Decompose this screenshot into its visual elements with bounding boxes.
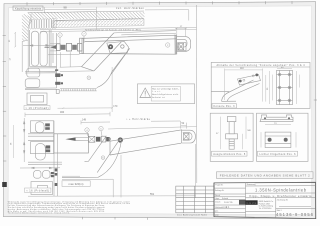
svg-text:Datum: Datum [215, 201, 221, 204]
lower glazing box [31, 182, 53, 195]
clip part right bottom [265, 132, 291, 147]
svg-text:≈ + Holz-Stärke: ≈ + Holz-Stärke [126, 118, 151, 121]
svg-text:Projekt Nr.: Projekt Nr. [215, 183, 223, 186]
svg-text:Ausgleichsbock Pos. 5: Ausgleichsbock Pos. 5 [213, 153, 246, 156]
svg-text:Zust. Änderung Datum Name: Zust. Änderung Datum Name [177, 213, 208, 216]
scissor arm diagonals lower view [85, 136, 121, 173]
svg-text:Tel. 07152/203-0: Tel. 07152/203-0 [259, 208, 272, 210]
drive body lower view [54, 134, 89, 153]
svg-text:Anschlußgehäuse nicht: Anschlußgehäuse nicht [152, 93, 178, 96]
svg-text:Kipp-, Klapp- u. Drehfenster e: Kipp-, Klapp- u. Drehfenster einwärts [250, 194, 313, 198]
dimension 98 top [45, 7, 97, 14]
extra left dim line lower view [13, 125, 15, 158]
svg-text:170: 170 [113, 105, 118, 108]
curved scissor arm upper view [97, 48, 130, 87]
chain teeth near frame [60, 89, 97, 91]
frame rebate lines under cluster [48, 52, 80, 67]
left small dim labels upper view [9, 39, 12, 61]
svg-text:460: 460 [60, 111, 65, 114]
svg-text:Auftrags Nr.: Auftrags Nr. [215, 189, 224, 192]
chain guide block at frame [56, 90, 59, 94]
balloons lower view [85, 126, 105, 159]
small chamber band [34, 171, 50, 179]
svg-text:24.07.95: 24.07.95 [224, 202, 233, 204]
label box Konsole Pos 3 [212, 104, 236, 108]
second dim line [81, 120, 110, 124]
chain path lines into frame [50, 44, 57, 51]
bracket boot side view [212, 75, 261, 102]
left edge graduation ticks [3, 36, 7, 162]
sash sill lines to frame [60, 67, 94, 72]
svg-text:Benennung: Benennung [247, 184, 256, 186]
svg-text:98: 98 [63, 6, 67, 10]
upper window frame profile with chambers [30, 30, 57, 88]
position balloons upper view [58, 32, 170, 80]
disclaimer text block bottom-left [8, 200, 131, 214]
label box "Kipplüftung einwärts" top-left [13, 6, 43, 10]
svg-text:Technische Änderungen vorbehal: Technische Änderungen vorbehalten. Stand… [8, 212, 71, 215]
upper profile fixing bolts (dark) [55, 69, 63, 84]
main title block frame [214, 182, 316, 218]
dim arrows across profile [23, 44, 57, 46]
lower band lines at y153-160 [28, 162, 62, 164]
svg-text:Gepr.: Gepr. [215, 197, 220, 200]
svg-text:≈ 16 (Prüfmaß): ≈ 16 (Prüfmaß) [26, 189, 49, 192]
svg-text:Zeichnungs Nr.: Zeichnungs Nr. [277, 198, 289, 201]
sash open diagonals upper view [82, 33, 130, 74]
extension lines down from bracket [96, 14, 112, 113]
svg-text:Kipplüftung einwärts: Kipplüftung einwärts [15, 6, 42, 10]
top dimension line lower view [25, 112, 110, 117]
svg-text:≈ 16 (Prüfmaß): ≈ 16 (Prüfmaß) [26, 107, 49, 110]
dimension 170 under upper view [58, 107, 113, 109]
svg-text:148: 148 [82, 119, 87, 122]
vertical divider line [196, 5, 198, 183]
svg-text:gepr.: gepr. [215, 213, 219, 216]
chain coupling cluster (dark parts) [45, 43, 83, 51]
svg-text:Max zul. werkseitige Zubeh.-: Max zul. werkseitige Zubeh.- [152, 87, 179, 90]
lower glazing label [25, 188, 51, 192]
svg-text:551: 551 [150, 193, 155, 196]
label left [212, 151, 248, 156]
spindle shaft [65, 136, 109, 142]
drive body right end fitting (hook) [175, 35, 191, 55]
top edge graduation ticks [27, 1, 292, 5]
left dim arrows lower view [20, 118, 60, 169]
svg-text:Maßstab: Maßstab [215, 206, 222, 209]
sash end cap lower view [182, 130, 196, 143]
svg-text:gez.: gez. [215, 211, 219, 213]
curved arm lower view [62, 141, 122, 178]
lower frame profile: band 1 [31, 121, 54, 133]
revision grid [176, 186, 214, 213]
svg-text:Konsole Pos. 3: Konsole Pos. 3 [214, 105, 236, 108]
upper glazing label [24, 106, 50, 110]
upper glazing box [27, 93, 47, 105]
svg-text:Abmaße der Verschraubung "Kons: Abmaße der Verschraubung "Konsole angeba… [217, 64, 306, 67]
clip part right top [260, 115, 293, 122]
left jamb hatch column [22, 12, 32, 51]
svg-text:belastet ist.: belastet ist. [152, 96, 165, 99]
svg-text:FEHLENDE DATEN UND ANGABEN SIE: FEHLENDE DATEN UND ANGABEN SIEHE BLATT 2 [220, 174, 310, 178]
svg-text:1.350N-Spindelantrieb: 1.350N-Spindelantrieb [255, 188, 307, 193]
svg-text:45136-9-0956: 45136-9-0956 [276, 212, 314, 217]
ghost line above sash [108, 127, 196, 129]
svg-text:Lichter Flügelbock Pos. 6: Lichter Flügelbock Pos. 6 [260, 153, 297, 156]
warning note box [138, 84, 195, 104]
max 320 label box [62, 181, 90, 187]
plaster speckle band [52, 19, 144, 28]
insulation loops under lintel [30, 19, 57, 30]
long reveal line to divider [40, 27, 196, 29]
T-bolt part left [226, 117, 238, 150]
frame right edge verticals lower view [54, 121, 58, 196]
band 3 (sash profile) [31, 142, 54, 160]
sash open band lower view [110, 130, 182, 155]
svg-text:Spindelantrieb kpl. mit Konsol: Spindelantrieb kpl. mit Konsole und Zube… [85, 28, 141, 31]
dims around boot [225, 69, 266, 102]
bottom dim 551 lower view [28, 144, 196, 198]
right edge tick [314, 99, 317, 101]
svg-text:zuz. Holz-Stärken: zuz. Holz-Stärken [116, 6, 145, 10]
svg-text:max 320(m): max 320(m) [69, 182, 84, 186]
upper sash profile band [25, 68, 57, 89]
svg-text:GEZE: GEZE [246, 201, 256, 205]
svg-text:Bearb.: Bearb. [215, 194, 221, 197]
label right [258, 151, 298, 156]
drive body upper view [80, 35, 176, 54]
FEHLENDE DATEN note [217, 172, 314, 179]
bracket plate with pivots [107, 41, 129, 53]
band 2 horizontal lines [28, 134, 54, 141]
pivot bolt lower view [118, 137, 123, 142]
jamb vertical lines [22, 40, 28, 72]
svg-text:Schmid: Schmid [222, 198, 228, 200]
thin sash-edge band above body [114, 31, 176, 35]
leaders to balloon 8 [175, 27, 187, 36]
left edge black fold mark [2, 182, 7, 187]
dims around front view [270, 69, 300, 104]
lintel hatch band (wall section) [24, 11, 150, 20]
bottom edge graduation ticks [83, 217, 148, 220]
bracket front view with bolts [277, 70, 293, 104]
